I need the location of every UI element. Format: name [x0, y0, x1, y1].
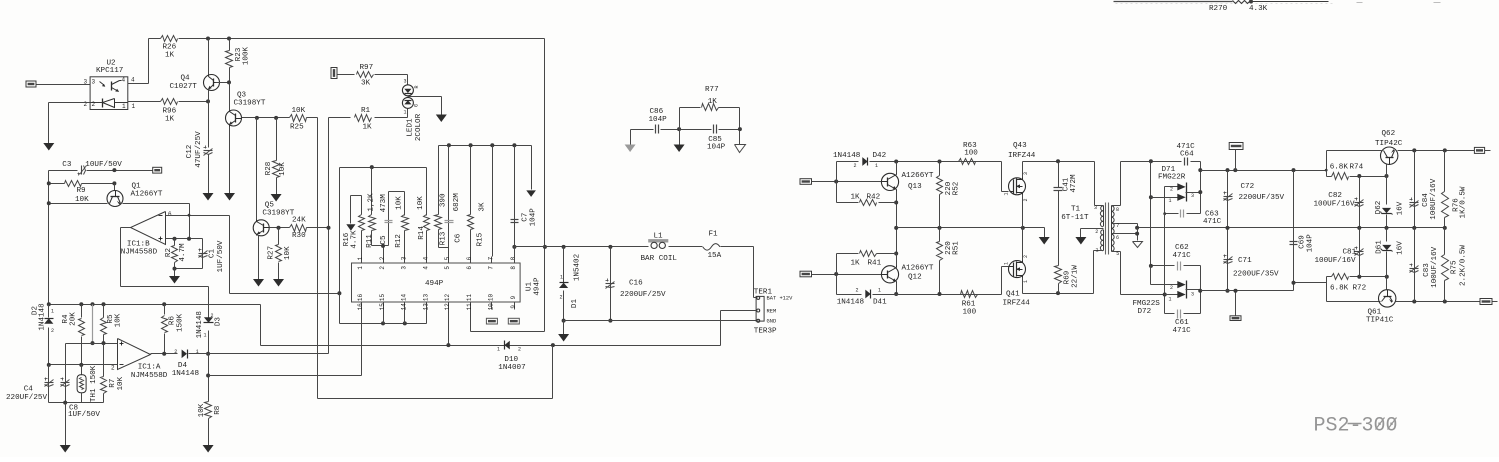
svg-text:C1: C1 [209, 249, 217, 259]
resistor R23 [226, 39, 233, 83]
node R23 top [227, 37, 231, 41]
svg-text:1UF/50V: 1UF/50V [217, 240, 225, 272]
svg-text:10: 10 [488, 294, 495, 302]
connector J-bot [1230, 316, 1241, 321]
capacitor C82 [1355, 177, 1364, 228]
label R14 [418, 226, 426, 240]
resistor R4 [79, 305, 85, 365]
label R77 [705, 86, 719, 94]
wire Q61 base col [1386, 277, 1388, 290]
svg-text:C3198YT: C3198YT [262, 209, 294, 217]
wire R42 out [879, 202, 897, 204]
pin Q43 3 [1003, 172, 1029, 202]
capacitor C72 [1224, 171, 1233, 228]
svg-text:3: 3 [1023, 172, 1029, 175]
wire pin14 [404, 310, 406, 324]
node C83 rail [1412, 300, 1416, 304]
svg-text:T1: T1 [1071, 206, 1081, 214]
node bus C6 [469, 143, 473, 147]
arrow bus gnd [526, 190, 536, 197]
node Q5 col top [255, 116, 259, 120]
transistor Q62 [1381, 147, 1398, 165]
svg-text:2: 2 [51, 328, 54, 334]
svg-text:7: 7 [1116, 223, 1119, 229]
label R1 [361, 107, 371, 115]
capacitor C81 [1355, 228, 1364, 277]
label C5 [380, 235, 388, 245]
svg-text:4: 4 [122, 77, 126, 84]
svg-text:10K: 10K [117, 376, 125, 390]
svg-text:TIP42C: TIP42C [1375, 140, 1403, 148]
wire R41 out [877, 253, 897, 255]
label C1 1UF/50V [217, 240, 225, 272]
label C41 [1063, 177, 1071, 191]
wire right gnd [739, 130, 741, 145]
node bus left [894, 226, 898, 230]
label T1 6T-11T [1061, 214, 1089, 222]
svg-text:1N4007: 1N4007 [498, 364, 525, 372]
svg-text:Q61: Q61 [1368, 309, 1382, 317]
arrow R16 [346, 224, 355, 231]
svg-text:2: 2 [111, 365, 115, 372]
capacitor C6 [445, 221, 454, 223]
svg-text:104P: 104P [707, 143, 726, 151]
wire bus arrow [531, 146, 533, 190]
label Q5 C3198YT [262, 209, 294, 217]
open ground mid [0, 0, 2, 2]
label C82 [1328, 192, 1342, 200]
pin labels D2 [51, 309, 54, 335]
label C86 104P [649, 116, 668, 124]
label REM [767, 308, 777, 314]
label R52 [953, 181, 961, 195]
resistor R14 [424, 215, 430, 257]
wire out2 stub [1493, 301, 1498, 303]
wire gnd bus [564, 320, 757, 322]
svg-text:C72: C72 [1241, 183, 1255, 191]
capacitor C41 [1054, 162, 1063, 266]
node D1 rail [562, 245, 566, 249]
label PS2-300 [1314, 415, 1398, 438]
wire Q5 emitter [258, 236, 260, 280]
node C86 mid [677, 127, 681, 131]
svg-text:LED1: LED1 [407, 118, 415, 137]
svg-text:D10: D10 [504, 356, 518, 364]
svg-text:U1: U1 [526, 282, 534, 292]
label R72 6.8K [1330, 285, 1349, 293]
transistor Q61 [1379, 290, 1396, 308]
svg-text:2: 2 [379, 256, 386, 260]
svg-text:FMG22S: FMG22S [1133, 300, 1161, 308]
svg-text:IC1:B: IC1:B [127, 241, 150, 249]
svg-text:4.3K: 4.3K [1249, 5, 1268, 13]
node pwmA [834, 180, 838, 184]
wire net166 down to bus [340, 294, 427, 324]
svg-text:10K: 10K [279, 162, 287, 176]
label R72 [1353, 285, 1367, 293]
svg-text:C7: C7 [521, 213, 529, 222]
connector J-out1 [1474, 147, 1484, 153]
resistor R1 [355, 115, 372, 122]
label C81 [1343, 249, 1357, 257]
svg-text:10K: 10K [198, 403, 206, 417]
wire R74 drop [1326, 171, 1328, 177]
node gray stub top [91, 302, 95, 306]
capacitor C71 [1224, 228, 1233, 291]
svg-text:D72: D72 [1138, 308, 1152, 316]
label R27 [268, 246, 276, 260]
label C7 [521, 213, 529, 222]
svg-text:C61: C61 [1175, 319, 1189, 327]
node fb row [337, 291, 341, 295]
wire Q4 base to R23 [216, 82, 230, 84]
capacitor C63 [1181, 210, 1184, 218]
wire row303 corner [261, 305, 721, 346]
wire out1 stub [1485, 150, 1491, 152]
node R76 rail [1443, 148, 1447, 152]
label R9 10K [75, 196, 89, 204]
svg-text:22/1W: 22/1W [1072, 265, 1080, 288]
node Q12 emit [894, 292, 898, 296]
svg-text:6: 6 [466, 256, 473, 260]
pin 4 stub [422, 256, 429, 269]
transistor Q1 [107, 191, 123, 207]
wire Q13 coll stub [896, 162, 898, 174]
capacitor C1 [199, 249, 208, 258]
wire conn stub bot [1235, 291, 1237, 316]
label C84 [1422, 193, 1430, 207]
svg-text:6.8K: 6.8K [1330, 285, 1349, 293]
svg-text:16V: 16V [1397, 201, 1405, 215]
node C72 bus [1226, 226, 1230, 230]
label C12 [186, 144, 194, 158]
wire Q1 to opamp plus [189, 204, 191, 239]
svg-text:D3: D3 [214, 317, 222, 327]
node conn stub botn [1234, 289, 1238, 293]
zener D62 [1381, 177, 1393, 228]
wire sec top to D71 [1151, 161, 1201, 163]
wire R2 C1 bottom [175, 268, 203, 270]
svg-text:TER3P: TER3P [754, 327, 777, 335]
wire vcc col [544, 39, 546, 247]
svg-text:3: 3 [1191, 193, 1194, 199]
pin 3 labels [84, 79, 96, 86]
svg-text:7: 7 [488, 266, 495, 270]
ground IC1B [169, 276, 180, 284]
T1 primary upper [1093, 162, 1104, 227]
wire D71 pin2 col [1164, 187, 1166, 214]
label Q1 A1266YT [131, 190, 163, 198]
transistor Q12 [881, 266, 898, 283]
wire Q4 collector [208, 39, 210, 76]
node C41 top [1056, 159, 1060, 163]
wire fb col [229, 216, 231, 294]
label R23 100K [243, 46, 251, 65]
wire R61 row [873, 294, 1002, 296]
svg-text:15: 15 [379, 294, 386, 302]
label Q12 [908, 274, 922, 282]
LED pin3 label [404, 78, 420, 88]
wire row 303.7 [49, 304, 261, 306]
label C82 100UF/16V [1314, 200, 1355, 208]
label LED1 [407, 118, 415, 137]
svg-text:1N4148: 1N4148 [172, 370, 200, 378]
wire D71 right col [1200, 162, 1202, 214]
diode D1 [559, 247, 568, 321]
wire gnd stem [174, 269, 176, 277]
svg-text:1: 1 [357, 256, 364, 260]
label Q13 [908, 183, 922, 191]
label C64 [1180, 151, 1194, 159]
pin 14 stub [401, 294, 408, 311]
node D71 pin3 node [1198, 190, 1202, 194]
svg-text:G: G [413, 104, 419, 107]
wire R77 right [719, 108, 740, 130]
svg-text:R28: R28 [265, 161, 273, 175]
svg-text:1: 1 [1096, 248, 1099, 254]
node minus corner [188, 214, 191, 217]
svg-text:1: 1 [878, 288, 881, 294]
resistor R7 [101, 344, 107, 403]
label C7 104P [529, 208, 537, 227]
svg-text:1: 1 [357, 266, 364, 270]
svg-text:R8: R8 [214, 405, 222, 415]
label R2 [165, 248, 173, 258]
label C69 104P [1307, 234, 1315, 253]
wire D71 pin2 row [1165, 186, 1178, 188]
svg-text:1: 1 [1003, 262, 1009, 265]
wire pin15 [383, 310, 385, 324]
svg-text:C1027T: C1027T [170, 83, 198, 91]
resistor R9 [65, 181, 82, 187]
pin 12 stub [444, 294, 451, 311]
svg-text:C3198YT: C3198YT [234, 100, 266, 108]
label R61 100 [963, 309, 977, 317]
svg-text:104P: 104P [529, 208, 537, 227]
LED LED1 green half [402, 97, 413, 108]
node C69 top [1292, 168, 1296, 172]
opamp B minus [159, 215, 163, 217]
node C82 bus [1357, 226, 1361, 230]
label Q4 [181, 75, 191, 83]
resistor R11 [369, 168, 376, 246]
svg-text:GND: GND [767, 319, 777, 325]
svg-text:R52: R52 [953, 181, 961, 195]
label IC1:A [138, 364, 161, 372]
svg-text:100K: 100K [243, 46, 251, 65]
label R16 4.7K [351, 230, 359, 249]
label 2COLOR [415, 113, 423, 141]
label R28 10K [279, 162, 287, 176]
pin D71 3 [1191, 193, 1194, 199]
label C62 471C [1173, 252, 1192, 260]
pin 11 stub [466, 294, 473, 311]
label R96 [163, 108, 177, 116]
label R6 150K [177, 313, 185, 332]
label U1 494P [534, 277, 542, 296]
label R7 10K [117, 376, 125, 390]
wire Q3 emitter [229, 127, 231, 194]
wire Q62 rail right [1398, 150, 1475, 152]
wire D71 pin1 col [1150, 162, 1152, 285]
wire R72 jog [1327, 277, 1332, 283]
svg-text:R69: R69 [1064, 270, 1072, 284]
svg-text:494P: 494P [425, 280, 444, 288]
node C8 plus [0, 0, 2, 2]
svg-text:IRFZ44: IRFZ44 [1003, 300, 1031, 308]
label C85 104P [707, 143, 726, 151]
MOSFET Q41 [1009, 261, 1026, 278]
label D71 FMG22R [1158, 174, 1186, 182]
wire IC1A out [151, 353, 178, 355]
node R75 rail [1443, 300, 1447, 304]
wire D71 pin3 [1186, 192, 1201, 194]
svg-text:IRFZ44: IRFZ44 [1008, 152, 1036, 160]
T1 pin digits [1094, 205, 1119, 257]
node pwmB [834, 272, 838, 276]
svg-text:1: 1 [122, 103, 126, 110]
label C62 [1175, 244, 1189, 252]
pin D3 2 [204, 313, 214, 338]
T1 center tap [1081, 229, 1104, 238]
svg-text:R30: R30 [292, 232, 306, 240]
ground R8 [203, 445, 214, 453]
label R270 [1209, 5, 1228, 13]
svg-text:D41: D41 [873, 299, 887, 307]
node vcc rail [543, 245, 547, 249]
resistor R61 [961, 291, 978, 298]
svg-text:FMG22R: FMG22R [1158, 174, 1186, 182]
wire R1 net [328, 118, 330, 354]
label R13 390 [440, 193, 448, 207]
svg-text:F1: F1 [709, 231, 719, 239]
svg-text:C62: C62 [1175, 244, 1189, 252]
pin D72 1 [1169, 297, 1172, 303]
ground C12 [203, 193, 214, 201]
label R11 1.2K [367, 193, 375, 212]
wire gnd stem2 [65, 403, 67, 446]
svg-text:100: 100 [964, 150, 978, 158]
node C81 bot [1357, 275, 1361, 279]
resistor R27 [276, 228, 282, 280]
pin 3 stub [401, 256, 408, 269]
label C1 [209, 249, 217, 259]
svg-text:10: 10 [488, 303, 495, 311]
node gray stub bot [91, 341, 95, 345]
label R5 10K [115, 313, 123, 327]
op-amp IC1:A [118, 339, 151, 370]
label R74 [1350, 164, 1364, 172]
MOSFET Q43 [1009, 178, 1026, 195]
svg-text:R27: R27 [268, 246, 276, 260]
svg-text:R75: R75 [1451, 260, 1459, 274]
svg-text:8: 8 [510, 256, 517, 260]
node Q4 base [227, 80, 231, 84]
connector J-top [1229, 143, 1243, 150]
node R52 top [938, 160, 942, 164]
transistor Q3 [226, 110, 242, 127]
T1 primary lower [1094, 230, 1104, 294]
node pin8 rail [512, 245, 516, 249]
svg-text:150K: 150K [177, 313, 185, 332]
svg-text:1: 1 [404, 110, 407, 116]
svg-text:1K: 1K [851, 194, 861, 202]
label C69 [1299, 235, 1307, 249]
resistor R26 [161, 36, 178, 42]
wire C3 top [49, 170, 153, 172]
wire gnd bus 144.8 [439, 145, 532, 147]
node C16 rail [608, 245, 612, 249]
label R8 [214, 405, 222, 415]
wire D42 branch [837, 162, 859, 182]
wire IC1B out [121, 228, 209, 318]
svg-text:3: 3 [1191, 292, 1194, 298]
svg-text:2: 2 [560, 294, 563, 300]
wire mid gnd [679, 130, 681, 145]
node pin15 bus [381, 321, 385, 325]
label C6 [455, 233, 463, 243]
resistor R28 [273, 118, 280, 195]
wire conn stub [1235, 150, 1237, 171]
svg-text:100UF/16V: 100UF/16V [1431, 246, 1439, 287]
svg-text:8: 8 [1116, 207, 1119, 213]
resistor R2 [172, 239, 178, 269]
svg-text:1K/0.5W: 1K/0.5W [1460, 186, 1468, 218]
diode D4 [182, 349, 188, 358]
svg-text:Q1: Q1 [132, 183, 142, 191]
svg-text:2: 2 [856, 288, 859, 294]
label C4 [24, 386, 34, 394]
wire railA up [1327, 151, 1382, 171]
diode D72b [1177, 291, 1185, 298]
svg-text:L1: L1 [654, 233, 664, 241]
svg-text:10K: 10K [417, 196, 425, 210]
svg-text:9: 9 [510, 305, 517, 309]
connector J-R97 [331, 68, 337, 79]
svg-text:D1: D1 [571, 299, 579, 309]
capacitor C16 [606, 247, 615, 321]
diode D42 [862, 157, 867, 166]
svg-text:1K: 1K [165, 52, 175, 60]
pin D72 2 [1170, 285, 1173, 291]
label C6 682M [453, 193, 461, 212]
wire plus row [66, 343, 118, 345]
node C85 right [738, 127, 742, 131]
wire Q43 src [1022, 195, 1024, 261]
wire Q61 rail right [1396, 301, 1481, 303]
node C63 left [1163, 212, 1166, 215]
wire C8 col [65, 344, 67, 403]
svg-text:6T-11T: 6T-11T [1061, 214, 1089, 222]
label C16 [629, 279, 643, 287]
resistor R52 [937, 162, 943, 228]
label C63 471C [1203, 218, 1222, 226]
node R9 left [47, 181, 51, 185]
label GND [767, 319, 777, 325]
node C8 bottom [63, 401, 67, 405]
resistor R74 [1327, 173, 1387, 180]
diode D41 [865, 290, 870, 299]
label R12 10K [395, 196, 403, 210]
svg-text:C64: C64 [1180, 151, 1194, 159]
T1 secondary [1111, 206, 1114, 252]
svg-text:C16: C16 [629, 279, 643, 287]
svg-text:16: 16 [357, 303, 364, 311]
node R270 [1249, 0, 1253, 4]
resistor R12 [402, 215, 409, 257]
svg-text:9: 9 [510, 295, 517, 299]
label D71 [1162, 166, 1176, 174]
